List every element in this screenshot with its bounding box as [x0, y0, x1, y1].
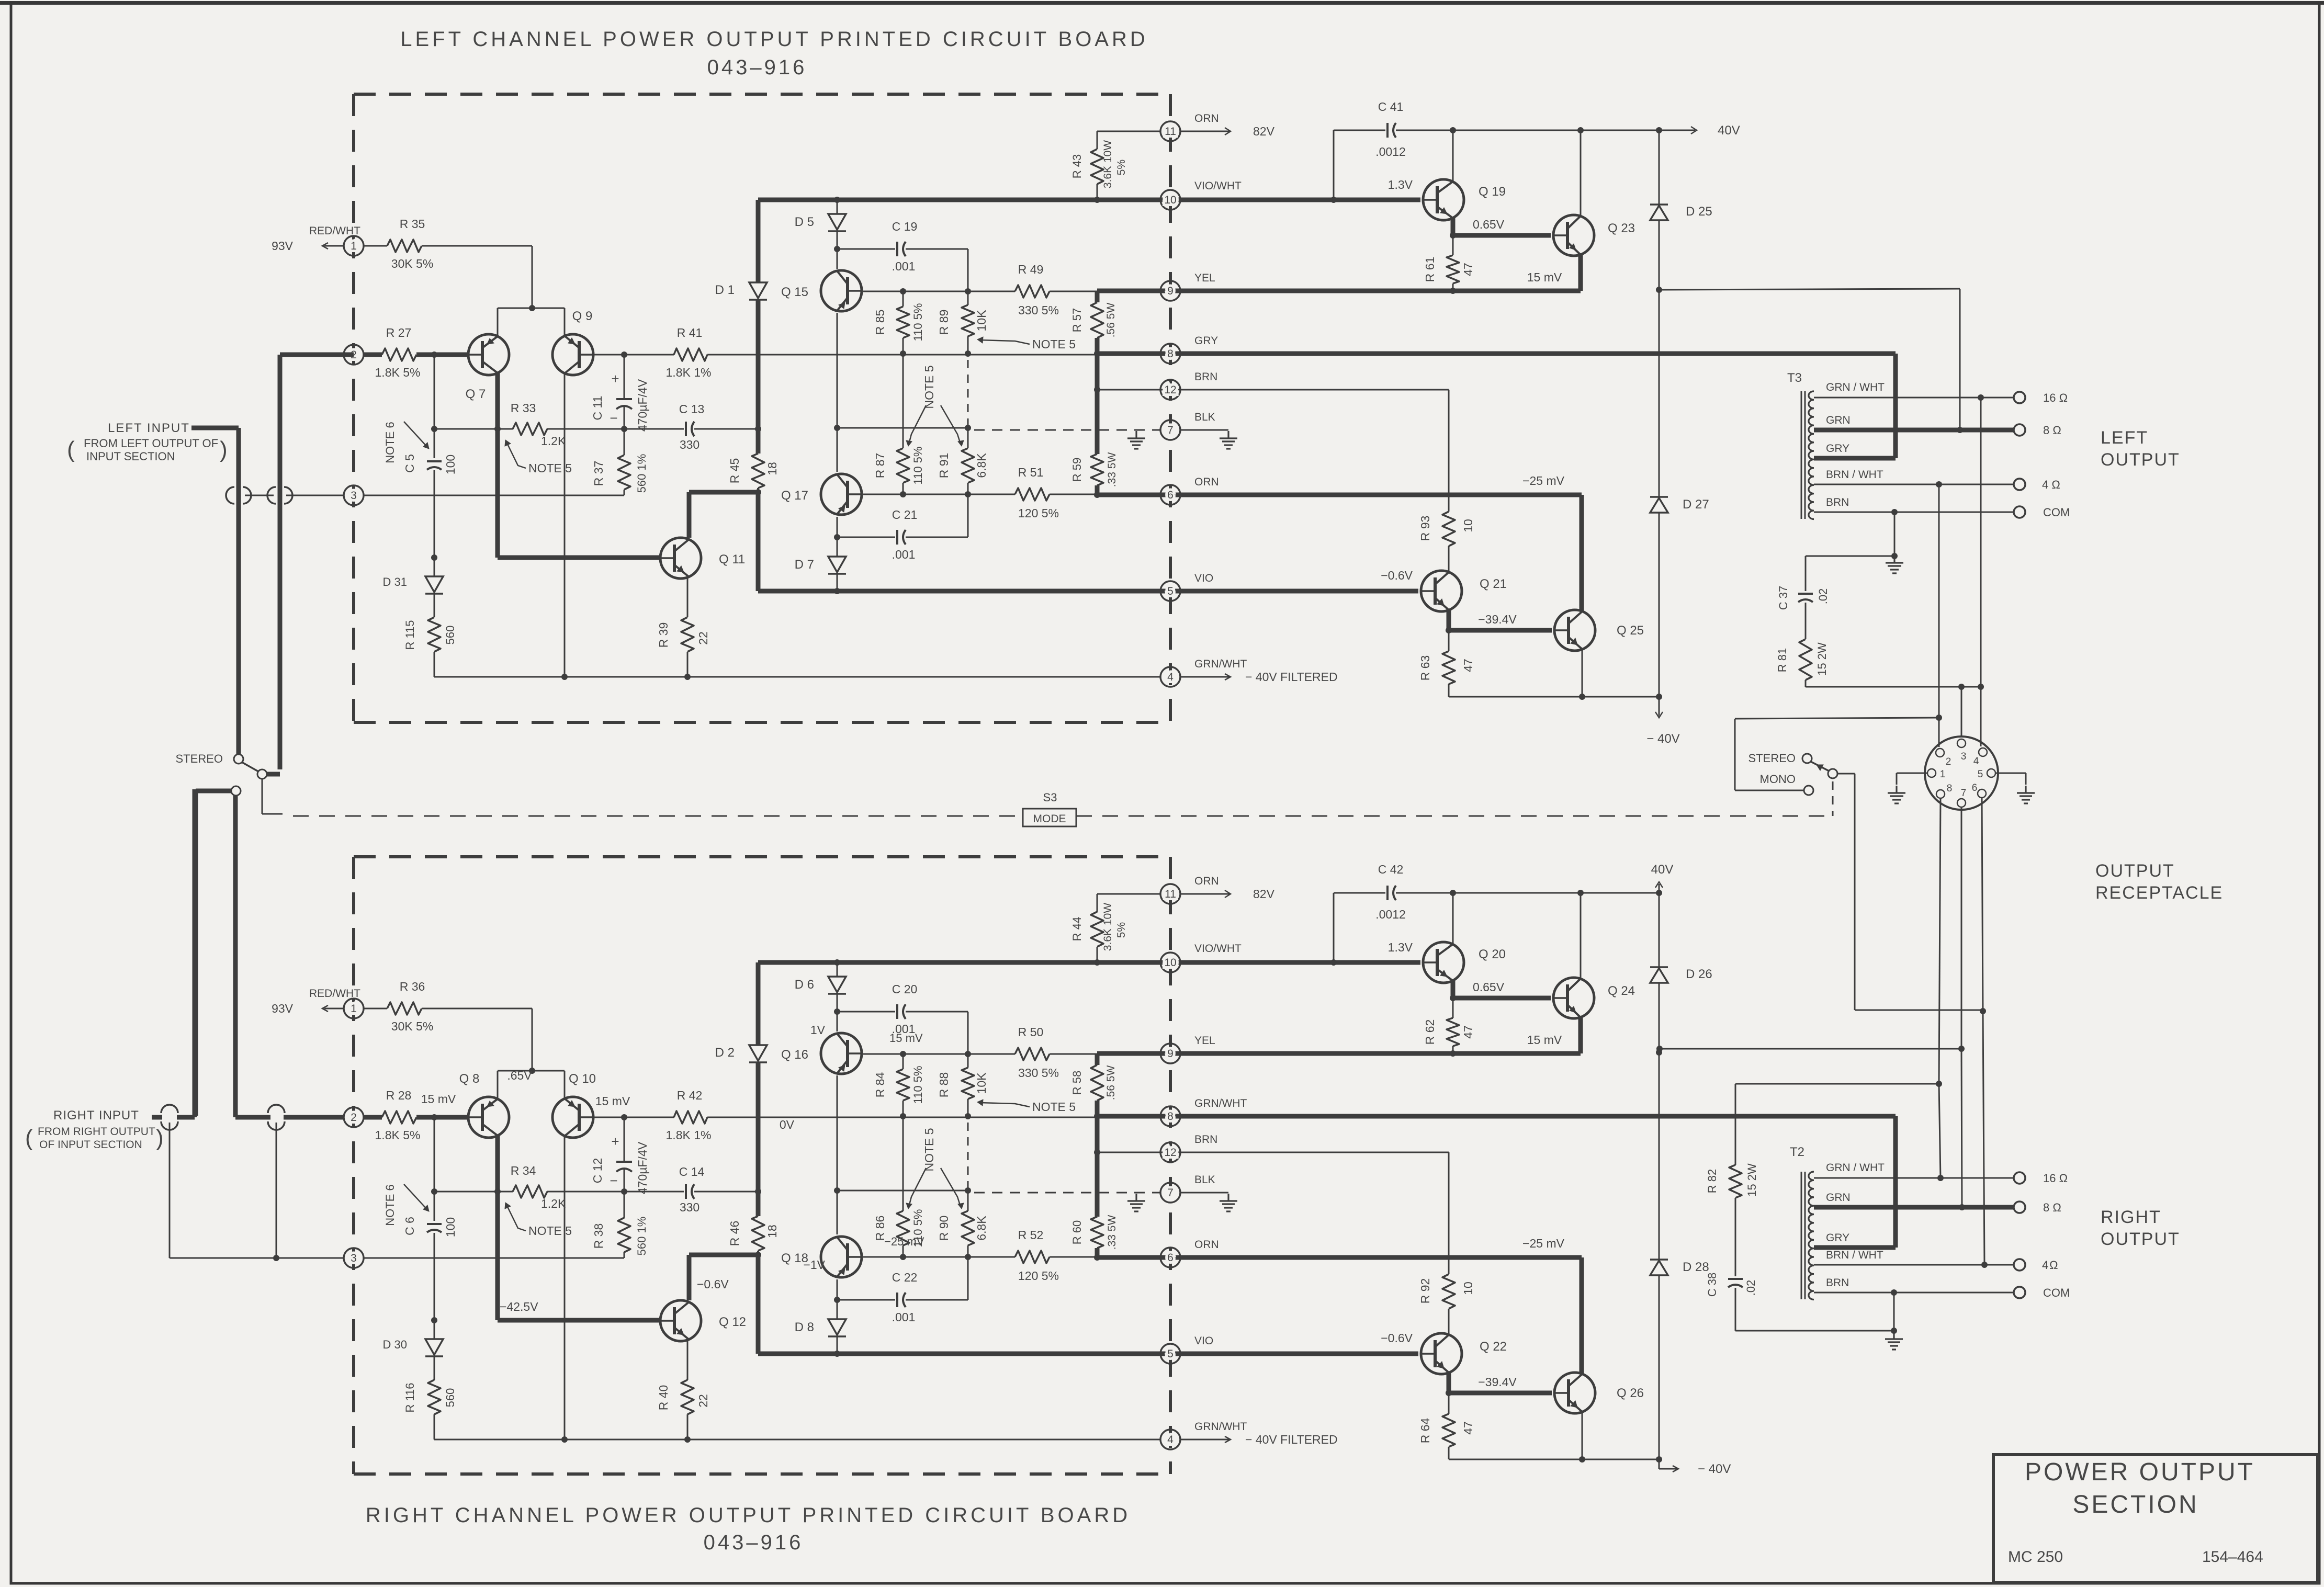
- wire driver column top: [837, 200, 838, 214]
- svg-text:Q 16: Q 16: [781, 1048, 808, 1062]
- resistor R 61: [1452, 235, 1454, 255]
- svg-text:MC 250: MC 250: [2008, 1548, 2063, 1566]
- terminal 5 (VIO): [1160, 1344, 1180, 1364]
- svg-text:R 88: R 88: [937, 1072, 951, 1098]
- resistor R 116: [428, 1380, 441, 1414]
- node -40V marker: [1659, 1459, 1660, 1469]
- svg-text:.001: .001: [892, 548, 916, 561]
- wire heavy vertical to VIO row: [756, 1255, 761, 1354]
- wire VIO/WHT row (terminal 10) heavy: [758, 198, 1420, 202]
- svg-text:R 91: R 91: [937, 453, 951, 479]
- svg-text:560: 560: [444, 626, 457, 645]
- transistor Q 10: [552, 1097, 593, 1138]
- svg-text:−25 mV: −25 mV: [1522, 474, 1565, 488]
- svg-text:1.8K 1%: 1.8K 1%: [666, 366, 712, 379]
- transistor Q 16: [821, 1033, 862, 1074]
- potentiometer R 88: [967, 1054, 969, 1068]
- wire terminal 3 row: [363, 1257, 624, 1259]
- terminal 11 (ORN): [1160, 884, 1180, 904]
- wire right input heavy: [152, 1115, 162, 1120]
- switch S3 MODE box: [1023, 809, 1076, 826]
- terminal COM left: [2014, 506, 2025, 518]
- terminal 12 (BRN): [1160, 1142, 1180, 1162]
- svg-text:16 Ω: 16 Ω: [2043, 1172, 2068, 1185]
- svg-text:FROM LEFT OUTPUT OF: FROM LEFT OUTPUT OF: [84, 437, 218, 450]
- svg-text:3: 3: [351, 1252, 357, 1264]
- ground T2 common: [1893, 1332, 1894, 1339]
- svg-text:.0012: .0012: [1375, 908, 1406, 921]
- wire VIO row (terminal 5) heavy: [758, 589, 1418, 594]
- svg-text:GRY: GRY: [1194, 335, 1218, 347]
- wire -25mV heavy corner to Q25 collector: [1580, 1257, 1584, 1374]
- wire Q17 emitter column: [837, 517, 838, 557]
- terminal 1 (RED/WHT): [363, 245, 387, 247]
- svg-text:15 mV: 15 mV: [889, 1031, 923, 1045]
- svg-text:GRN: GRN: [1826, 414, 1851, 426]
- svg-text:D 2: D 2: [715, 1046, 735, 1060]
- svg-text:C 22: C 22: [892, 1271, 918, 1284]
- wire T2 GRY tap heavy riser: [1814, 1245, 1896, 1250]
- terminal 10 (VIO/WHT): [1160, 953, 1180, 972]
- diode D 27: [1650, 496, 1668, 498]
- wire D26 junction row: [1660, 1048, 1961, 1050]
- svg-text:4: 4: [1973, 756, 1979, 767]
- terminal 8: [1160, 344, 1180, 364]
- svg-text:INPUT SECTION: INPUT SECTION: [86, 450, 175, 463]
- wire GRY row from R41 to rail: [707, 354, 1097, 356]
- svg-text:1: 1: [351, 240, 357, 252]
- svg-text:120 5%: 120 5%: [1018, 1269, 1059, 1283]
- ground receptacle left: [1897, 773, 1927, 774]
- svg-text:MODE: MODE: [1033, 813, 1066, 825]
- svg-text:5: 5: [1978, 769, 1983, 780]
- svg-text:−: −: [610, 410, 617, 426]
- wire T2 BRN tap to COM: [1814, 1292, 2014, 1294]
- wire BRN row to R93 column: [1448, 1152, 1450, 1274]
- svg-text:15 2W: 15 2W: [1745, 1163, 1758, 1197]
- svg-text:Q 24: Q 24: [1608, 984, 1635, 998]
- resistor R 41: [624, 354, 674, 356]
- transistor Q 15: [821, 270, 862, 311]
- wire receptacle pin 8 down to R82 rail and T2: [1939, 799, 1941, 1084]
- resistor R 115: [428, 617, 441, 652]
- wire heavy rail left of terminals: [1095, 291, 1100, 302]
- svg-text:93V: 93V: [272, 239, 294, 253]
- transistor Q 20: [1423, 942, 1464, 983]
- transistor Q 22: [1421, 1333, 1462, 1374]
- svg-text:22: 22: [696, 1394, 710, 1408]
- diode D 2: [749, 1045, 767, 1061]
- transistor Q 18: [821, 1237, 862, 1277]
- svg-text:C 11: C 11: [591, 396, 604, 421]
- wire R89 wiper dashed gang: [967, 1123, 969, 1191]
- diode D 31: [434, 558, 435, 576]
- wire T3 BRN/WHT tap to 4 ohm: [1814, 484, 2014, 485]
- svg-text:93V: 93V: [272, 1002, 294, 1015]
- svg-text:R 64: R 64: [1418, 1418, 1432, 1444]
- svg-text:4: 4: [1167, 671, 1174, 683]
- wire T3 GRN tap heavy to 8 ohm: [1814, 428, 2014, 433]
- svg-text:YEL: YEL: [1194, 1035, 1215, 1047]
- svg-text:R 116: R 116: [403, 1382, 416, 1412]
- terminal 3: [344, 1248, 364, 1268]
- svg-text:RIGHT: RIGHT: [2101, 1207, 2161, 1227]
- svg-text:C 14: C 14: [679, 1165, 705, 1178]
- terminal 6 (ORN): [1160, 485, 1180, 505]
- svg-text:R 57: R 57: [1070, 308, 1084, 332]
- diode D 28: [1650, 1259, 1668, 1261]
- svg-text:R 59: R 59: [1070, 458, 1084, 482]
- wire Q21 emitter heavy to Q25 base: [1447, 609, 1451, 630]
- terminal COM right: [2014, 1287, 2025, 1298]
- svg-text:1: 1: [1940, 769, 1946, 780]
- wire snubber rail: [1735, 1083, 1939, 1085]
- svg-text:16 Ω: 16 Ω: [2043, 391, 2068, 404]
- wire Q11 collector heavy: [687, 1255, 692, 1300]
- wire Q25 emitter row: [1582, 648, 1583, 697]
- terminal 12 (BRN): [1160, 380, 1180, 400]
- svg-text:+: +: [611, 1133, 619, 1149]
- svg-text:1.3V: 1.3V: [1388, 940, 1413, 954]
- svg-text:1.3V: 1.3V: [1388, 178, 1413, 191]
- svg-text:C 19: C 19: [892, 220, 918, 233]
- svg-text:NOTE 5: NOTE 5: [922, 1128, 936, 1171]
- wire BRN row (terminal 12): [1097, 1152, 1449, 1153]
- svg-text:RECEPTACLE: RECEPTACLE: [2095, 883, 2223, 903]
- svg-text:D 30: D 30: [383, 1338, 407, 1351]
- svg-text:COM: COM: [2043, 506, 2070, 519]
- wire heavy vertical from VIO/WHT row: [756, 200, 761, 282]
- svg-text:30K 5%: 30K 5%: [391, 1019, 434, 1033]
- svg-text:C 20: C 20: [892, 982, 918, 996]
- potentiometer R 89: [967, 291, 969, 305]
- wire BLK row (terminal 7) with grounds: [974, 429, 1160, 431]
- svg-text:R 44: R 44: [1070, 917, 1084, 941]
- terminal 6 (ORN): [1160, 1248, 1180, 1267]
- ground receptacle right: [1995, 773, 2026, 774]
- wire terminal 3 row: [363, 495, 624, 496]
- svg-text:−: −: [610, 1173, 617, 1188]
- wire BRN row (terminal 12): [1097, 389, 1449, 391]
- svg-text:− 40V FILTERED: − 40V FILTERED: [1245, 670, 1338, 684]
- svg-text:−25 mV: −25 mV: [1522, 1237, 1565, 1250]
- svg-text:R 82: R 82: [1706, 1169, 1719, 1193]
- svg-text:D 1: D 1: [715, 283, 735, 297]
- wire Q7 emitter heavy to Q11 base: [495, 373, 500, 558]
- svg-text:GRN/WHT: GRN/WHT: [1194, 658, 1247, 670]
- svg-text:VIO/WHT: VIO/WHT: [1194, 943, 1242, 955]
- svg-text:110 5%: 110 5%: [911, 447, 924, 485]
- svg-text:.56 5W: .56 5W: [1105, 303, 1117, 338]
- svg-text:Q 7: Q 7: [466, 387, 486, 401]
- wire dashed to right switch: [1832, 781, 1834, 816]
- connector coupling to terminal 2: [267, 487, 276, 504]
- wire Q7 base to C5 column: [434, 1117, 435, 1192]
- svg-text:GRN: GRN: [1826, 1192, 1851, 1204]
- svg-text:2: 2: [351, 1112, 357, 1124]
- svg-text:VIO: VIO: [1194, 572, 1213, 584]
- svg-text:NOTE 5: NOTE 5: [1032, 1100, 1076, 1114]
- svg-text:8: 8: [1947, 783, 1953, 794]
- svg-text:GRY: GRY: [1826, 1232, 1849, 1244]
- wire T2 BRN/WHT tap to 4 ohm: [1814, 1264, 2014, 1266]
- resistor R 38: [624, 1192, 625, 1218]
- svg-text:T3: T3: [1787, 371, 1802, 385]
- ground at terminal 7 right: [1227, 1194, 1229, 1201]
- terminal 4 ohm right: [2014, 1259, 2025, 1271]
- svg-text:.001: .001: [892, 259, 916, 273]
- svg-text:− 40V: − 40V: [1646, 732, 1679, 746]
- svg-text:R 45: R 45: [728, 458, 741, 484]
- svg-text:Q 25: Q 25: [1617, 624, 1644, 638]
- svg-text:7: 7: [1167, 1187, 1174, 1199]
- wire receptacle pin 7 down to T2 8 ohm: [1961, 808, 1962, 1049]
- terminal 8 ohm left: [2014, 424, 2025, 436]
- svg-text:+: +: [611, 371, 619, 387]
- wire YEL row (terminal 9) heavy: [1097, 1051, 1581, 1056]
- capacitor C 5: [434, 429, 435, 458]
- node -40V marker: [1659, 697, 1660, 716]
- svg-text:40V: 40V: [1651, 863, 1674, 877]
- svg-text:BRN: BRN: [1826, 1277, 1849, 1289]
- svg-text:R 42: R 42: [677, 1089, 703, 1102]
- svg-text:R 33: R 33: [511, 401, 536, 415]
- wire ORN row (terminal 6) heavy: [1097, 493, 1582, 497]
- wire -25mV heavy corner to Q25 collector: [1580, 495, 1584, 611]
- svg-text:Q 23: Q 23: [1608, 221, 1635, 235]
- wire heavy vertical to VIO row: [756, 492, 761, 591]
- node 40V marker: [1659, 884, 1660, 893]
- ground T3 common: [1894, 512, 1896, 554]
- svg-text:−25 mV: −25 mV: [884, 1235, 924, 1248]
- svg-text:COM: COM: [2043, 1286, 2070, 1299]
- wire driver column top: [837, 962, 838, 977]
- svg-text:110 5%: 110 5%: [911, 303, 924, 342]
- wire right switch pivot to receptacle column: [1837, 773, 1855, 775]
- svg-text:120 5%: 120 5%: [1018, 506, 1059, 520]
- svg-text:10: 10: [1461, 519, 1475, 532]
- svg-text:1.8K 1%: 1.8K 1%: [666, 1128, 712, 1142]
- svg-text:D 7: D 7: [795, 558, 814, 572]
- svg-text:10K: 10K: [975, 1072, 988, 1094]
- wire -40V FILTERED row (terminal 4): [434, 1439, 1160, 1441]
- capacitor C 21: [837, 537, 895, 538]
- svg-text:−39.4V: −39.4V: [1478, 613, 1517, 626]
- diode D 6: [828, 977, 846, 992]
- svg-text:R 49: R 49: [1018, 263, 1044, 276]
- wire Q19 emitter heavy to Q23 base: [1451, 980, 1456, 998]
- svg-text:C 12: C 12: [591, 1158, 604, 1184]
- terminal 8: [1160, 1106, 1180, 1126]
- transistor Q 25: [1554, 610, 1595, 651]
- svg-text:.0012: .0012: [1375, 145, 1406, 158]
- svg-text:RIGHT INPUT: RIGHT INPUT: [53, 1108, 139, 1123]
- svg-text:Q 19: Q 19: [1479, 185, 1506, 199]
- wire Q23 emitter heavy to YEL row: [1578, 253, 1583, 291]
- svg-text:−1V: −1V: [803, 1258, 825, 1272]
- capacitor C 11 electrolytic: [624, 355, 625, 399]
- svg-text:D 31: D 31: [383, 575, 407, 588]
- wire terminal 11 row (ORN) to 82V: [1097, 893, 1160, 895]
- resistor R 90: [967, 1191, 969, 1211]
- svg-text:R 37: R 37: [592, 461, 605, 486]
- wire Q23 emitter heavy to YEL row: [1578, 1016, 1583, 1053]
- resistor R 28: [363, 1115, 382, 1120]
- wire left input heavy: [191, 426, 239, 430]
- svg-text:560 1%: 560 1%: [635, 454, 648, 493]
- svg-text:12: 12: [1164, 384, 1176, 396]
- svg-text:GRN/WHT: GRN/WHT: [1194, 1097, 1247, 1109]
- capacitor C 12 electrolytic: [624, 1117, 625, 1162]
- svg-text:−0.6V: −0.6V: [1381, 569, 1413, 582]
- svg-text:R 60: R 60: [1070, 1220, 1084, 1244]
- terminal 7 (BLK): [1160, 420, 1180, 440]
- svg-text:Q 15: Q 15: [781, 285, 808, 299]
- capacitor C 37: [1806, 556, 1894, 557]
- svg-text:5%: 5%: [1115, 922, 1127, 938]
- svg-text:8 Ω: 8 Ω: [2043, 1201, 2061, 1214]
- svg-text:470µF/4V: 470µF/4V: [636, 379, 649, 432]
- svg-text:47: 47: [1461, 1421, 1475, 1435]
- svg-text:6: 6: [1167, 489, 1174, 501]
- svg-text:S3: S3: [1043, 791, 1057, 804]
- svg-text:LEFT: LEFT: [2101, 428, 2148, 448]
- svg-text:C 42: C 42: [1378, 863, 1404, 876]
- transistor Q 21: [1421, 571, 1462, 611]
- wire YEL row (terminal 9) heavy: [1097, 289, 1581, 293]
- wire terminal 11 row (ORN) to 82V: [1097, 131, 1160, 132]
- svg-text:(: (: [25, 1125, 33, 1151]
- wire Q15 base row: [863, 291, 1015, 292]
- svg-text:1.2K: 1.2K: [541, 434, 566, 448]
- svg-text:043–916: 043–916: [707, 56, 807, 79]
- svg-text:18: 18: [765, 462, 779, 475]
- svg-text:): ): [156, 1125, 164, 1151]
- resistor R 51: [1015, 488, 1050, 501]
- resistor R 86: [902, 1116, 904, 1211]
- wire terminal 8 row heavy to transformer: [1097, 1114, 1896, 1119]
- svg-text:−42.5V: −42.5V: [500, 1300, 538, 1313]
- resistor R 60: [1091, 1217, 1103, 1248]
- resistor R 33: [434, 428, 513, 430]
- svg-text:Q 10: Q 10: [569, 1072, 596, 1086]
- svg-text:C 38: C 38: [1706, 1273, 1719, 1297]
- svg-text:BRN / WHT: BRN / WHT: [1826, 469, 1883, 481]
- diode D 1: [749, 282, 767, 298]
- svg-text:R 85: R 85: [873, 310, 887, 335]
- svg-text:GRN/WHT: GRN/WHT: [1194, 1421, 1247, 1433]
- svg-text:2: 2: [1946, 756, 1951, 767]
- diode D 8: [828, 1319, 846, 1335]
- wire coupling taps to terminal 3 row: [169, 1123, 171, 1258]
- svg-text:C 5: C 5: [403, 454, 416, 473]
- wire BLK row (terminal 7) with grounds: [974, 1192, 1160, 1194]
- diode D 5: [828, 214, 846, 230]
- svg-text:1.2K: 1.2K: [541, 1197, 566, 1210]
- wire right input riser heavy: [233, 796, 238, 1117]
- svg-text:NOTE 5: NOTE 5: [922, 365, 936, 409]
- wire R89 wiper dashed gang: [967, 360, 969, 428]
- svg-text:.33 5W: .33 5W: [1106, 452, 1118, 488]
- transistor Q 9: [552, 334, 593, 375]
- svg-text:3.6K 10W: 3.6K 10W: [1102, 903, 1114, 951]
- svg-text:BRN: BRN: [1194, 371, 1217, 383]
- svg-text:11: 11: [1165, 126, 1176, 138]
- svg-text:6: 6: [1972, 783, 1978, 793]
- wire switch to MODE dashed: [262, 779, 263, 814]
- svg-text:10: 10: [1461, 1282, 1475, 1295]
- resistor R 63: [1448, 630, 1450, 651]
- svg-text:Q 8: Q 8: [459, 1072, 480, 1086]
- resistor R 58: [1091, 1065, 1103, 1101]
- svg-text:3: 3: [1961, 751, 1967, 762]
- svg-text:Q 12: Q 12: [719, 1315, 746, 1329]
- svg-text:Q 20: Q 20: [1479, 947, 1506, 961]
- transistor Q 26: [1554, 1373, 1595, 1413]
- wire mono bridge wire: [1735, 790, 1804, 791]
- svg-text:330 5%: 330 5%: [1018, 1066, 1059, 1080]
- resistor R 45: [752, 454, 764, 488]
- svg-text:22: 22: [696, 631, 710, 645]
- wire T3 GRY tap heavy riser: [1814, 456, 1896, 461]
- svg-text:.65V: .65V: [507, 1069, 532, 1082]
- svg-text:D 5: D 5: [795, 215, 814, 229]
- svg-text:ORN: ORN: [1194, 1239, 1219, 1251]
- capacitor C 42: [1333, 893, 1335, 962]
- wire Q25 emitter row: [1582, 1411, 1583, 1459]
- resistor R 87: [902, 354, 904, 448]
- wire R35 to collector node: [532, 246, 533, 308]
- transistor Q 8: [468, 1097, 509, 1138]
- wire GRY row from R41 to rail: [707, 1117, 1097, 1118]
- terminal 2: [344, 1107, 364, 1127]
- resistor R 37: [624, 429, 625, 455]
- svg-text:15 mV: 15 mV: [595, 1094, 630, 1108]
- capacitor C 22: [837, 1299, 895, 1301]
- svg-text:R 93: R 93: [1418, 516, 1432, 541]
- svg-text:100: 100: [444, 455, 457, 474]
- svg-text:R 50: R 50: [1018, 1025, 1044, 1039]
- resistor R 44: [1097, 894, 1098, 912]
- wire 40V rail: [1453, 892, 1659, 894]
- svg-text:−0.6V: −0.6V: [697, 1277, 729, 1291]
- svg-text:5: 5: [1167, 585, 1174, 597]
- terminal 16 ohm left: [2014, 392, 2025, 403]
- resistor R 62: [1452, 998, 1454, 1018]
- svg-text:18: 18: [765, 1225, 779, 1238]
- resistor R 85: [902, 291, 904, 307]
- wire Q23 collector to 40V rail: [1580, 893, 1582, 980]
- svg-text:C 37: C 37: [1777, 586, 1790, 610]
- wire Q15 base row: [863, 1053, 1015, 1055]
- svg-text:3: 3: [351, 490, 357, 502]
- wire Q15 emitter to Q17 collector: [837, 313, 838, 472]
- svg-text:(: (: [67, 437, 75, 462]
- svg-text:82V: 82V: [1253, 124, 1275, 138]
- resistor R 43: [1097, 131, 1098, 149]
- terminal 16 ohm right: [2014, 1172, 2025, 1184]
- diode D 26: [1659, 893, 1660, 967]
- resistor R 39: [687, 579, 689, 617]
- svg-text:R 40: R 40: [657, 1385, 670, 1411]
- resistor R 91: [967, 428, 969, 448]
- svg-text:R 34: R 34: [511, 1164, 536, 1177]
- svg-text:330 5%: 330 5%: [1018, 303, 1059, 317]
- svg-text:BRN: BRN: [1194, 1133, 1217, 1146]
- wire BRN row to R93 column: [1448, 390, 1450, 512]
- diode D 25: [1659, 130, 1660, 205]
- terminal 9 (YEL): [1160, 281, 1180, 301]
